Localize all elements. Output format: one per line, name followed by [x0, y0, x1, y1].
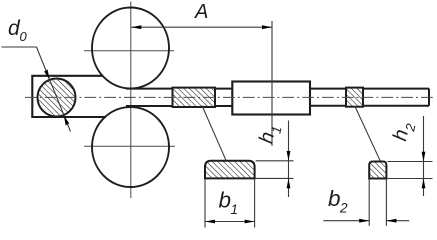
section b1 (hatched) [205, 161, 255, 179]
A dimension line [131, 26, 272, 28]
h2 dimension line [423, 116, 425, 196]
h2 extension top [387, 161, 432, 163]
right bar top edge [310, 88, 429, 90]
bottom roll [92, 107, 169, 187]
b1 dimension line [205, 221, 255, 223]
svg-text:b: b [219, 188, 232, 213]
A arrow left [131, 25, 141, 29]
b2 dimension line right part [386, 220, 409, 222]
h2 arrow lower [422, 179, 426, 189]
hatched strip section 1 [173, 88, 216, 107]
h2 extension bottom [387, 178, 432, 180]
block (upset section) [232, 82, 310, 115]
svg-text:A: A [194, 1, 208, 23]
label h1 [255, 123, 284, 147]
d0 arrow upper [44, 70, 50, 80]
initial bar rectangle [32, 76, 106, 117]
b1 extension line left [204, 179, 206, 228]
h1 extension bottom [256, 177, 294, 179]
top roll centerline mark [84, 50, 174, 52]
b2 dimension line left part [323, 220, 369, 222]
leader to section b2 [355, 106, 381, 161]
top roll [92, 8, 169, 89]
A arrow right [262, 25, 272, 29]
h1 extension top [256, 160, 294, 162]
label h2 [389, 119, 418, 143]
b1 arrow left [205, 220, 215, 224]
svg-text:2: 2 [339, 201, 348, 216]
h1 dimension line [288, 121, 290, 198]
h1 arrow upper [287, 151, 291, 161]
hatched strip section 2 [346, 88, 363, 107]
d0 arrow lower [64, 115, 69, 125]
b1 arrow right [245, 220, 255, 224]
svg-text:1: 1 [231, 202, 239, 217]
b1 extension line right [254, 179, 256, 228]
strip top edge [126, 88, 232, 90]
bottom roll centerline mark [84, 145, 175, 147]
bar section d0 (hatched circle) [38, 79, 76, 117]
right bar end edge [428, 89, 430, 106]
h1 arrow lower [287, 178, 291, 188]
right bar bottom edge [310, 105, 429, 107]
strip bottom edge [126, 105, 232, 107]
b2 extension line right [385, 179, 387, 226]
svg-text:0: 0 [20, 29, 28, 44]
b2 arrow right [386, 219, 396, 223]
roll vertical centerline [130, 2, 132, 199]
h2 arrow upper [422, 152, 426, 162]
axis center line (dash-dot) [25, 96, 434, 98]
d0 dimension diagonal line [37, 47, 71, 132]
svg-text:b: b [328, 186, 341, 211]
d0 label shelf [2, 46, 37, 48]
section b2 (hatched) [369, 162, 386, 179]
b2 extension line left [368, 179, 370, 226]
leader to section b1 [202, 106, 226, 161]
A extension / block centerline [271, 21, 273, 146]
b2 arrow left [359, 219, 369, 223]
